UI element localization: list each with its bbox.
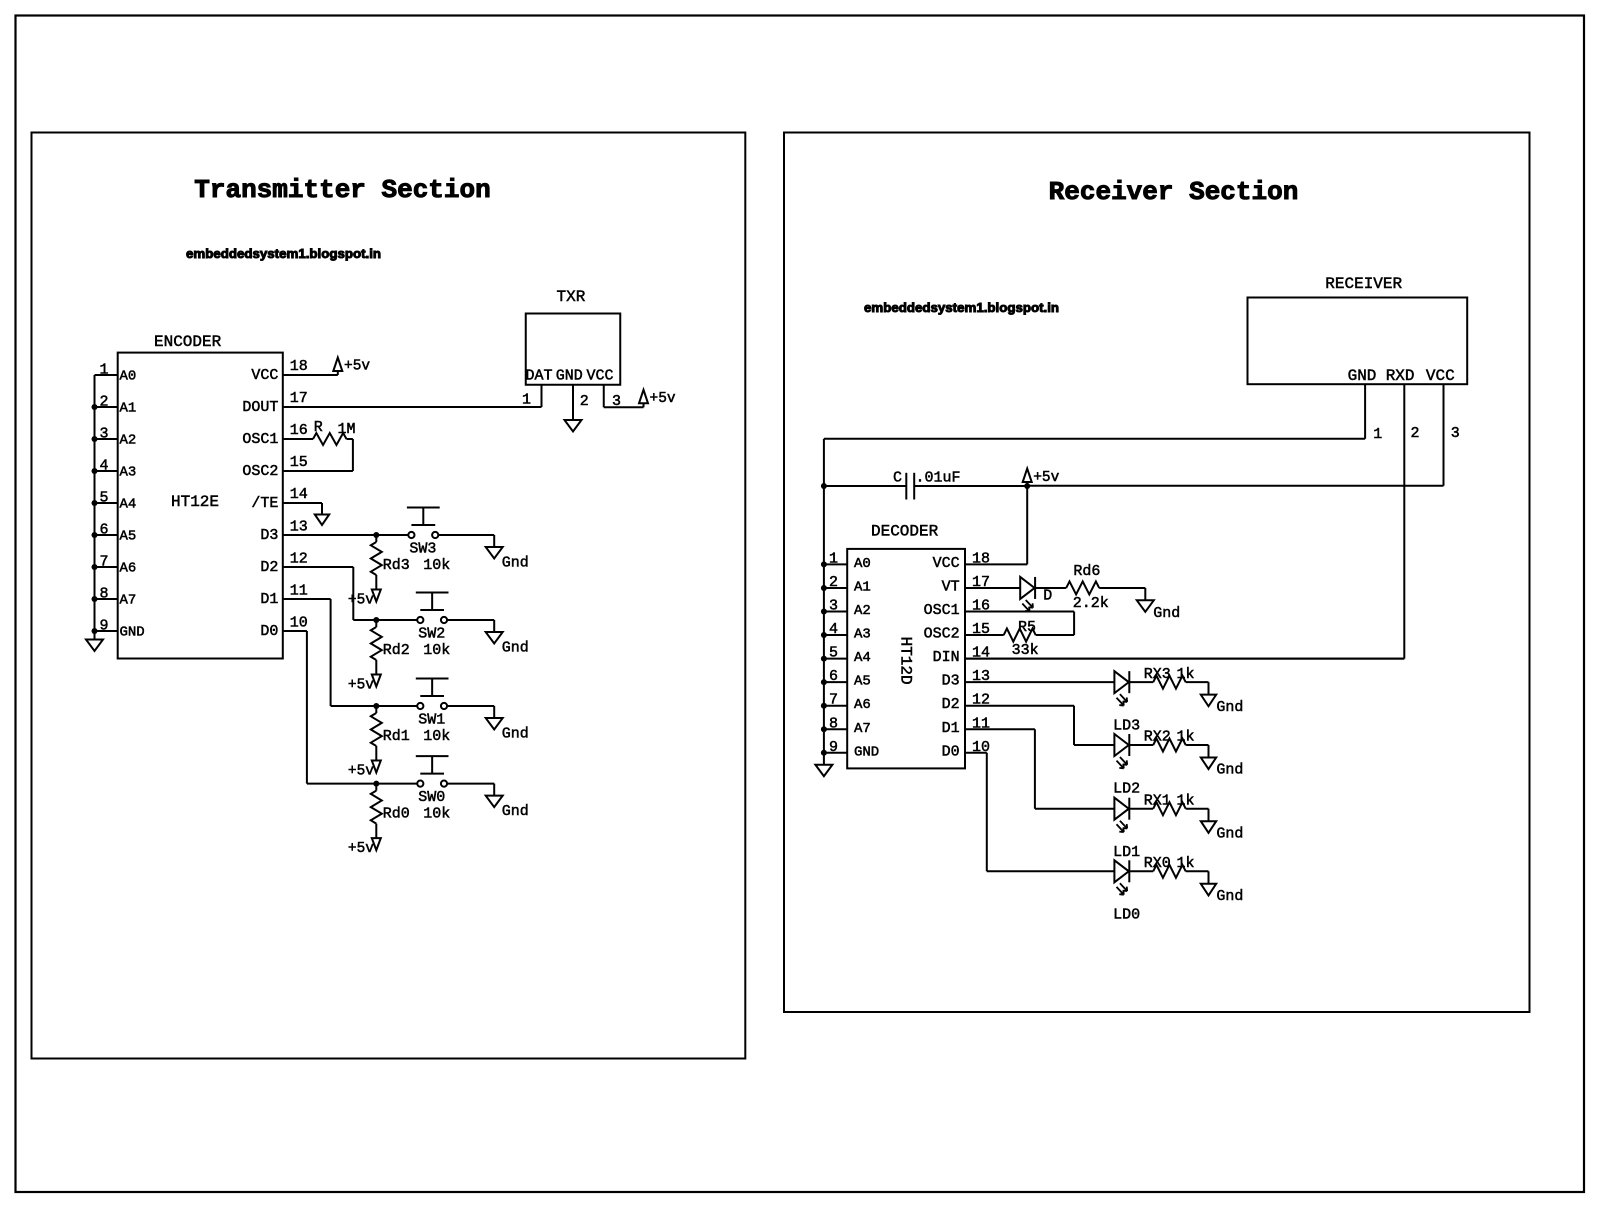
TXR pin 3 VCC: [604, 385, 644, 410]
resistor Rd0 10k: [371, 784, 451, 839]
receiver section box: [784, 133, 1530, 1013]
svg-text:16: 16: [290, 422, 308, 439]
encoder U1 HT12E box: [118, 353, 283, 659]
svg-text:/TE: /TE: [251, 495, 278, 512]
decoder pin 3 A2: [821, 598, 871, 620]
svg-text:VT: VT: [942, 578, 960, 595]
decoder address bus wire: [823, 486, 825, 765]
resistor Rd6 2.2k: [1066, 563, 1109, 612]
decoder pin 2 A1: [821, 574, 871, 596]
TXR module box: [526, 314, 621, 385]
ground Gnd (LD0): [1201, 884, 1244, 905]
svg-text:A2: A2: [854, 603, 871, 619]
wire RX0 to ground: [1186, 871, 1209, 883]
power +5v (encoder VCC): [333, 358, 370, 376]
svg-text:10k: 10k: [423, 642, 450, 659]
node junction (bus / C): [821, 483, 827, 489]
svg-text:Gnd: Gnd: [502, 726, 529, 743]
svg-text:DOUT: DOUT: [242, 399, 278, 416]
svg-text:A7: A7: [120, 593, 137, 609]
svg-text:13: 13: [290, 519, 308, 536]
ground Gnd (SW2): [486, 632, 529, 657]
svg-text:D3: D3: [260, 527, 278, 544]
svg-text:TXR: TXR: [557, 288, 586, 306]
svg-text:10: 10: [290, 615, 308, 632]
svg-text:11: 11: [290, 583, 308, 600]
svg-text:LD0: LD0: [1113, 907, 1140, 924]
LED LD2: [1113, 734, 1140, 797]
svg-text:1: 1: [99, 362, 108, 379]
wire RX2 to ground: [1186, 745, 1209, 757]
encoder address bus wire: [94, 375, 96, 640]
resistor RX3 1k: [1144, 666, 1195, 689]
TXR pin 1 DAT: [522, 385, 542, 409]
svg-text:Gnd: Gnd: [1216, 699, 1243, 716]
svg-text:A3: A3: [120, 465, 137, 481]
svg-text:+5v: +5v: [1033, 470, 1059, 486]
node junction (SW2 / Rd2): [373, 617, 379, 623]
wire Rd6 to ground: [1099, 588, 1145, 600]
svg-text:Gnd: Gnd: [502, 555, 529, 572]
svg-text:33k: 33k: [1012, 642, 1039, 659]
svg-text:DAT: DAT: [526, 368, 553, 385]
encoder pin 11 D1: [260, 583, 307, 609]
pushbutton switch SW3: [407, 508, 440, 558]
wire SW3 row: [439, 535, 495, 547]
svg-text:18: 18: [290, 358, 308, 375]
svg-text:4: 4: [99, 458, 108, 475]
node junction (+5v / VCC18): [1024, 483, 1030, 489]
ground Gnd (LD2): [1201, 758, 1244, 779]
svg-text:SW2: SW2: [418, 626, 445, 643]
encoder pin 12 D2: [260, 551, 307, 577]
resistor Rd1 10k: [371, 706, 451, 761]
wire SW1 row: [447, 706, 494, 718]
wire LD3 anode-cathode: [1130, 681, 1153, 683]
svg-text:3: 3: [612, 393, 621, 410]
svg-text:5: 5: [829, 645, 838, 662]
receiver pin labels GND RXD VCC: [1348, 367, 1455, 385]
wire +5v node down to pin 18: [1026, 486, 1028, 564]
svg-text:A0: A0: [854, 556, 871, 572]
svg-text:3: 3: [829, 598, 838, 615]
svg-text:RXD: RXD: [1386, 367, 1415, 385]
wire D1 to LD1: [965, 729, 1114, 808]
wire D2 to SW2: [283, 567, 417, 620]
resistor R5 33k: [1004, 619, 1039, 659]
svg-text:15: 15: [290, 454, 308, 471]
svg-text:HT12D: HT12D: [896, 637, 914, 685]
encoder pin 14 /TE: [251, 486, 322, 515]
svg-text:LD1: LD1: [1113, 844, 1140, 861]
svg-text:D0: D0: [942, 743, 960, 760]
svg-text:2: 2: [580, 393, 589, 410]
decoder pin 8 A7: [821, 715, 871, 737]
title: Receiver Section: [1049, 177, 1299, 207]
ground Gnd (SW3): [486, 547, 529, 572]
ground Gnd (SW0): [486, 796, 529, 821]
resistor RX0 1k: [1144, 855, 1195, 878]
svg-text:A7: A7: [854, 721, 871, 737]
svg-text:RX0: RX0: [1144, 855, 1171, 872]
encoder pin 4 A3: [92, 458, 137, 481]
resistor R 1M (encoder osc): [313, 419, 356, 471]
svg-text:1: 1: [522, 392, 531, 409]
svg-text:VCC: VCC: [587, 368, 614, 385]
svg-text:LD3: LD3: [1113, 717, 1140, 734]
wire cap row left: [824, 485, 906, 487]
svg-text:A4: A4: [854, 650, 871, 666]
wire LD0 anode-cathode: [1130, 870, 1153, 872]
svg-text:D1: D1: [942, 720, 960, 737]
svg-text:OSC1: OSC1: [242, 431, 278, 448]
svg-text:SW3: SW3: [409, 541, 436, 558]
encoder pin 3 A2: [92, 426, 137, 449]
svg-text:14: 14: [290, 486, 308, 503]
svg-text:2: 2: [1411, 425, 1420, 442]
label TXR: [557, 288, 586, 306]
encoder pin 9 GND: [92, 618, 145, 641]
power +5v (below Rd1): [348, 761, 381, 780]
svg-text:Rd1: Rd1: [383, 728, 410, 745]
svg-text:VCC: VCC: [933, 555, 960, 572]
wire DIN row: [965, 658, 1404, 660]
watermark embeddedsystem1.blogspot.in (right): [864, 300, 1059, 315]
svg-text:RX2: RX2: [1144, 729, 1171, 746]
svg-text:DIN: DIN: [933, 649, 960, 666]
svg-text:D3: D3: [942, 673, 960, 690]
decoder pin 11 D1 label: [942, 715, 990, 737]
wire RX3 to ground: [1186, 682, 1209, 694]
svg-text:GND: GND: [854, 744, 879, 760]
svg-text:+5v: +5v: [650, 391, 676, 407]
encoder pin 8 A7: [92, 586, 137, 609]
svg-text:10k: 10k: [423, 728, 450, 745]
pushbutton switch SW2: [416, 593, 449, 643]
node junction (SW3 / Rd3): [373, 532, 379, 538]
svg-text:DECODER: DECODER: [871, 522, 939, 540]
wire R5 to OSC1 loop: [1036, 634, 1074, 636]
svg-text:2: 2: [99, 394, 108, 411]
svg-text:embeddedsystem1.blogspot.in: embeddedsystem1.blogspot.in: [864, 300, 1059, 315]
svg-text:LD2: LD2: [1113, 780, 1140, 797]
svg-text:SW0: SW0: [418, 789, 445, 806]
power +5v (decoder VCC): [1023, 469, 1060, 487]
svg-text:+5v: +5v: [348, 841, 374, 857]
wire D3 to LD3: [965, 681, 1114, 683]
svg-text:D: D: [1043, 588, 1052, 605]
label HT12E: [171, 493, 219, 511]
svg-text:1M: 1M: [338, 421, 356, 438]
LED LD0: [1113, 860, 1140, 923]
svg-text:OSC2: OSC2: [242, 463, 278, 480]
encoder pin 10 D0: [260, 615, 307, 641]
svg-text:4: 4: [829, 621, 838, 638]
svg-text:R5: R5: [1018, 619, 1036, 636]
svg-text:RX3: RX3: [1144, 666, 1171, 683]
node junction (SW0 / Rd0): [373, 781, 379, 787]
svg-text:7: 7: [829, 692, 838, 709]
ground (decoder GND bus): [815, 765, 832, 777]
LED D: [1020, 577, 1052, 611]
receiver pin 3 VCC wire: [1027, 384, 1460, 486]
svg-text:Gnd: Gnd: [1216, 762, 1243, 779]
svg-text:1k: 1k: [1177, 792, 1195, 809]
LED LD1: [1113, 798, 1140, 861]
encoder pin 1 A0: [95, 362, 137, 385]
svg-text:2.2k: 2.2k: [1073, 595, 1109, 612]
svg-text:Rd3: Rd3: [383, 557, 410, 574]
svg-text:HT12E: HT12E: [171, 493, 219, 511]
svg-text:GND: GND: [1348, 367, 1377, 385]
svg-text:OSC1: OSC1: [924, 602, 960, 619]
decoder pin 18 VCC label: [933, 550, 990, 572]
svg-text:A4: A4: [120, 497, 137, 513]
svg-text:1k: 1k: [1177, 666, 1195, 683]
label HT12D (vertical): [896, 637, 914, 685]
TXR pin labels DAT GND VCC: [526, 368, 614, 385]
svg-text:17: 17: [290, 390, 308, 407]
decoder pin 14 DIN label: [933, 645, 990, 667]
decoder pin 9 GND: [821, 739, 879, 761]
svg-text:OSC2: OSC2: [924, 626, 960, 643]
svg-text:3: 3: [99, 426, 108, 443]
encoder pin 16 OSC1: [242, 422, 313, 448]
svg-text:A6: A6: [854, 697, 871, 713]
pushbutton switch SW0: [416, 756, 449, 806]
decoder pin 7 A6: [821, 692, 871, 714]
ground (TXR pin 2): [565, 420, 582, 432]
svg-text:7: 7: [99, 554, 108, 571]
svg-text:A5: A5: [854, 674, 871, 690]
ground (/TE): [315, 515, 329, 526]
wire D0 to LD0: [965, 753, 1114, 872]
decoder pin 6 A5: [821, 668, 871, 690]
svg-text:Receiver Section: Receiver Section: [1049, 177, 1299, 207]
svg-text:D1: D1: [260, 591, 278, 608]
wire LD2 anode-cathode: [1130, 744, 1153, 746]
encoder pin 17 DOUT wire to TXR: [242, 390, 541, 416]
encoder pin 2 A1: [92, 394, 137, 417]
wire SW0 row: [447, 784, 494, 796]
svg-text:6: 6: [829, 668, 838, 685]
svg-text:8: 8: [829, 715, 838, 732]
wire LD1 anode-cathode: [1130, 808, 1153, 810]
svg-text:9: 9: [829, 739, 838, 756]
decoder pin 17 VT label: [942, 574, 990, 596]
wire RX1 to ground: [1186, 809, 1209, 821]
TXR pin 2 GND: [573, 385, 589, 420]
decoder pin 1 A0: [821, 550, 871, 572]
svg-text:Rd2: Rd2: [383, 642, 410, 659]
encoder pin 7 A6: [92, 554, 137, 577]
ground Gnd (LD3): [1201, 695, 1244, 716]
wire OSC2 to R5: [965, 634, 1004, 636]
svg-text:GND: GND: [120, 625, 145, 641]
svg-text:1k: 1k: [1177, 855, 1195, 872]
svg-text:Gnd: Gnd: [1153, 605, 1180, 622]
svg-text:Gnd: Gnd: [502, 640, 529, 657]
resistor RX2 1k: [1144, 729, 1195, 752]
ground Gnd (LD1): [1201, 821, 1244, 842]
resistor RX1 1k: [1144, 792, 1195, 815]
svg-text:Gnd: Gnd: [1216, 825, 1243, 842]
svg-text:ENCODER: ENCODER: [154, 333, 222, 351]
label ENCODER: [154, 333, 222, 351]
wire OSC1 loop: [965, 612, 1074, 636]
encoder pin 18 VCC: [251, 358, 337, 384]
svg-text:A5: A5: [120, 529, 137, 545]
decoder pin 16 OSC1 label: [924, 598, 990, 620]
svg-text:1: 1: [829, 550, 838, 567]
power +5v (TXR): [639, 390, 676, 408]
decoder pin 12 D2 label: [942, 692, 990, 714]
pushbutton switch SW1: [416, 679, 449, 729]
svg-text:A3: A3: [854, 627, 871, 643]
svg-text:6: 6: [99, 522, 108, 539]
svg-text:A2: A2: [120, 433, 137, 449]
svg-text:2: 2: [829, 574, 838, 591]
svg-text:1k: 1k: [1177, 729, 1195, 746]
encoder pin 13 D3: [260, 519, 307, 545]
svg-text:D0: D0: [260, 623, 278, 640]
RECEIVER module box: [1248, 298, 1468, 385]
svg-text:10k: 10k: [423, 806, 450, 823]
svg-text:A1: A1: [854, 579, 871, 595]
receiver pin 1 GND wire: [824, 384, 1382, 486]
wire cap to +5v node: [914, 485, 1027, 487]
capacitor C .01uF: [893, 470, 961, 500]
svg-text:A1: A1: [120, 401, 137, 417]
decoder pin 4 A3: [821, 621, 871, 643]
wire decoder pin 18 VCC: [965, 563, 1027, 565]
decoder pin 15 OSC2 label: [924, 621, 990, 643]
wire SW2 row: [447, 620, 494, 632]
svg-text:1: 1: [1373, 426, 1382, 443]
wire diode to Rd6: [1035, 587, 1066, 589]
svg-text:12: 12: [290, 551, 308, 568]
svg-text:3: 3: [1451, 425, 1460, 442]
encoder pin 6 A5: [92, 522, 137, 545]
label DECODER: [871, 522, 939, 540]
encoder pin 15 OSC2: [242, 454, 353, 480]
watermark embeddedsystem1.blogspot.in (left): [186, 246, 381, 261]
svg-text:VCC: VCC: [1426, 367, 1455, 385]
title: Transmitter Section: [194, 175, 490, 205]
decoder pin 10 D0 label: [942, 739, 990, 761]
svg-text:+5v: +5v: [348, 593, 374, 609]
svg-text:VCC: VCC: [251, 367, 278, 384]
ground Gnd (SW1): [486, 718, 529, 743]
transmitter section box: [32, 133, 746, 1059]
svg-text:D2: D2: [942, 696, 960, 713]
svg-text:D2: D2: [260, 559, 278, 576]
svg-text:9: 9: [99, 618, 108, 635]
power +5v (below Rd3): [348, 590, 381, 609]
svg-text:Rd6: Rd6: [1073, 563, 1100, 580]
svg-text:C: C: [893, 470, 902, 487]
svg-text:A0: A0: [120, 369, 137, 385]
encoder pin 5 A4: [92, 490, 137, 513]
decoder pin 13 D3 label: [942, 668, 990, 690]
LED LD3: [1113, 671, 1140, 734]
svg-text:.01uF: .01uF: [916, 470, 961, 487]
svg-text:embeddedsystem1.blogspot.in: embeddedsystem1.blogspot.in: [186, 246, 381, 261]
wire D3 to SW3: [283, 534, 408, 536]
power +5v (below Rd2): [348, 675, 381, 694]
svg-text:Rd0: Rd0: [383, 806, 410, 823]
svg-text:A6: A6: [120, 561, 137, 577]
svg-text:GND: GND: [556, 368, 583, 385]
svg-text:R: R: [314, 419, 323, 436]
svg-text:8: 8: [99, 586, 108, 603]
svg-text:Gnd: Gnd: [1216, 888, 1243, 905]
svg-text:5: 5: [99, 490, 108, 507]
ground Gnd (Rd6): [1137, 600, 1180, 622]
resistor Rd2 10k: [371, 620, 451, 675]
label RECEIVER: [1325, 275, 1402, 293]
svg-text:SW1: SW1: [418, 712, 445, 729]
svg-text:+5v: +5v: [348, 764, 374, 780]
node junction (SW1 / Rd1): [373, 703, 379, 709]
svg-text:Transmitter Section: Transmitter Section: [194, 175, 490, 205]
svg-text:+5v: +5v: [348, 678, 374, 694]
wire VT to diode D: [965, 587, 1020, 589]
svg-text:RX1: RX1: [1144, 792, 1171, 809]
wire D1 to SW1: [283, 599, 417, 706]
svg-text:Gnd: Gnd: [502, 803, 529, 820]
receiver pin 2 RXD wire: [965, 384, 1420, 658]
svg-text:+5v: +5v: [344, 359, 370, 375]
decoder U2 HT12D box: [847, 549, 965, 769]
svg-text:RECEIVER: RECEIVER: [1325, 275, 1402, 293]
decoder pin 5 A4: [821, 645, 871, 667]
svg-text:10k: 10k: [423, 557, 450, 574]
power +5v (below Rd0): [348, 838, 381, 857]
wire D0 to SW0: [283, 631, 417, 784]
wire D2 to LD2: [965, 706, 1114, 745]
resistor Rd3 10k: [371, 535, 451, 590]
ground (encoder GND bus): [86, 640, 103, 652]
